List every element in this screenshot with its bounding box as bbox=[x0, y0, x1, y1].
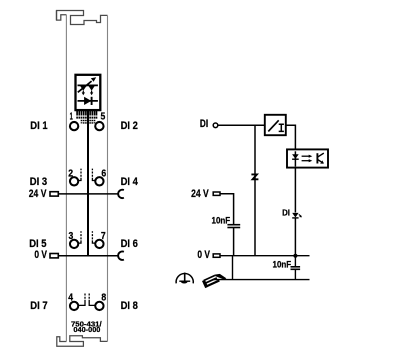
svg-text:10nF: 10nF bbox=[273, 259, 292, 270]
svg-text:DI 2: DI 2 bbox=[121, 120, 138, 132]
filter box U2 bbox=[265, 115, 286, 135]
wire 24V to capacitor C1 bbox=[220, 194, 234, 225]
24V rail wire bbox=[58, 193, 118, 195]
LED DI status bbox=[292, 213, 298, 218]
filter slope symbol bbox=[268, 120, 278, 131]
center bus wire bbox=[87, 110, 89, 256]
wire C1 to 0V rail bbox=[233, 228, 235, 256]
0V terminal square right bbox=[213, 254, 220, 257]
0V rail wire bbox=[58, 255, 118, 257]
housing left wall bbox=[65, 15, 67, 342]
svg-text:24 V: 24 V bbox=[29, 188, 47, 200]
LED diagonal arrow bbox=[78, 81, 92, 92]
terminal DI open circle bbox=[213, 123, 218, 128]
diode D1 in LED box bbox=[78, 100, 98, 102]
24V continuation arc bbox=[118, 190, 124, 198]
wire LED DI to 0V rail bbox=[294, 218, 296, 256]
svg-text:DI 6: DI 6 bbox=[121, 238, 138, 250]
svg-text:DI 8: DI 8 bbox=[121, 300, 138, 312]
wire C2 to shield rail bbox=[294, 270, 296, 280]
contact 6 bbox=[95, 177, 103, 185]
shield rail wire bbox=[213, 279, 310, 281]
housing bottom foot profile bbox=[57, 336, 108, 347]
contact 7 stub bbox=[92, 240, 95, 243]
contact 3 bbox=[70, 240, 78, 248]
terminal block housing outline bbox=[57, 11, 108, 347]
contact 2 stub bbox=[78, 178, 81, 181]
24V terminal square right bbox=[213, 192, 220, 195]
contact 8 bbox=[95, 302, 103, 310]
contact 6 stub bbox=[92, 178, 95, 181]
0V rail bbox=[220, 255, 310, 257]
LED left triangle bbox=[80, 85, 87, 90]
wire filter box to optocoupler bbox=[286, 125, 296, 149]
LED box U1 bbox=[76, 75, 101, 110]
svg-text:3: 3 bbox=[69, 231, 74, 242]
optocoupler U3 bbox=[287, 149, 328, 167]
functional earth symbol bbox=[176, 273, 193, 283]
housing right wall bbox=[107, 15, 109, 341]
contact 5 bbox=[95, 122, 103, 130]
svg-text:6: 6 bbox=[101, 168, 106, 179]
capacitor C2 bbox=[291, 266, 301, 268]
contact 7 bbox=[95, 240, 103, 248]
svg-text:DI: DI bbox=[200, 118, 208, 130]
contact 4 stub bbox=[78, 300, 85, 306]
svg-text:5: 5 bbox=[101, 111, 106, 122]
LED left emission arrow bbox=[82, 91, 84, 93]
contact 1 bbox=[70, 122, 78, 130]
wire optocoupler to LED DI bbox=[294, 168, 296, 213]
svg-text:2: 2 bbox=[68, 168, 73, 179]
contact 4 bbox=[70, 302, 78, 310]
wire 0V to shield (left drop) bbox=[232, 256, 234, 280]
svg-text:DI 5: DI 5 bbox=[29, 238, 46, 250]
contact 3 stub bbox=[78, 240, 81, 243]
wire zener branch bbox=[254, 125, 256, 255]
svg-text:24 V: 24 V bbox=[191, 188, 209, 200]
optocoupler LED bbox=[292, 154, 299, 159]
svg-text:DI 1: DI 1 bbox=[30, 120, 47, 132]
svg-text:0 V: 0 V bbox=[34, 249, 47, 261]
housing top profile bbox=[57, 11, 108, 25]
wire DI to filter box bbox=[218, 124, 265, 126]
capacitor C1 bbox=[227, 224, 240, 226]
svg-text:4: 4 bbox=[68, 293, 73, 304]
svg-text:0 V: 0 V bbox=[197, 249, 210, 261]
letter I symbol bbox=[279, 124, 284, 131]
junction dot bbox=[293, 254, 297, 258]
suppressor diode Z1 bbox=[251, 174, 258, 179]
wire 0V to C2 bbox=[294, 256, 296, 267]
contact 8 stub bbox=[89, 300, 95, 306]
contact 2 bbox=[70, 177, 78, 185]
svg-text:8: 8 bbox=[101, 293, 106, 304]
contact ribbon below LED box bbox=[77, 110, 96, 124]
svg-text:7: 7 bbox=[101, 231, 106, 242]
svg-text:1: 1 bbox=[70, 111, 73, 122]
0V terminal square bbox=[50, 254, 58, 258]
housing top-left hook bbox=[57, 11, 67, 21]
svg-text:DI: DI bbox=[282, 208, 290, 218]
svg-text:040-000: 040-000 bbox=[73, 325, 100, 334]
DIN rail symbol bbox=[202, 274, 226, 288]
svg-text:DI 4: DI 4 bbox=[121, 176, 139, 188]
24V terminal square bbox=[50, 192, 58, 196]
0V continuation arc bbox=[118, 252, 124, 260]
optocoupler light arrows bbox=[302, 155, 310, 157]
LED pair symbol top rail bbox=[78, 84, 98, 86]
LED right triangle bbox=[88, 85, 95, 90]
optocoupler phototransistor bbox=[316, 153, 318, 163]
svg-text:DI 7: DI 7 bbox=[30, 300, 47, 312]
LED right emission arrow bbox=[91, 91, 93, 93]
optocoupler LED wire bbox=[294, 151, 296, 166]
svg-text:DI 3: DI 3 bbox=[30, 176, 47, 188]
